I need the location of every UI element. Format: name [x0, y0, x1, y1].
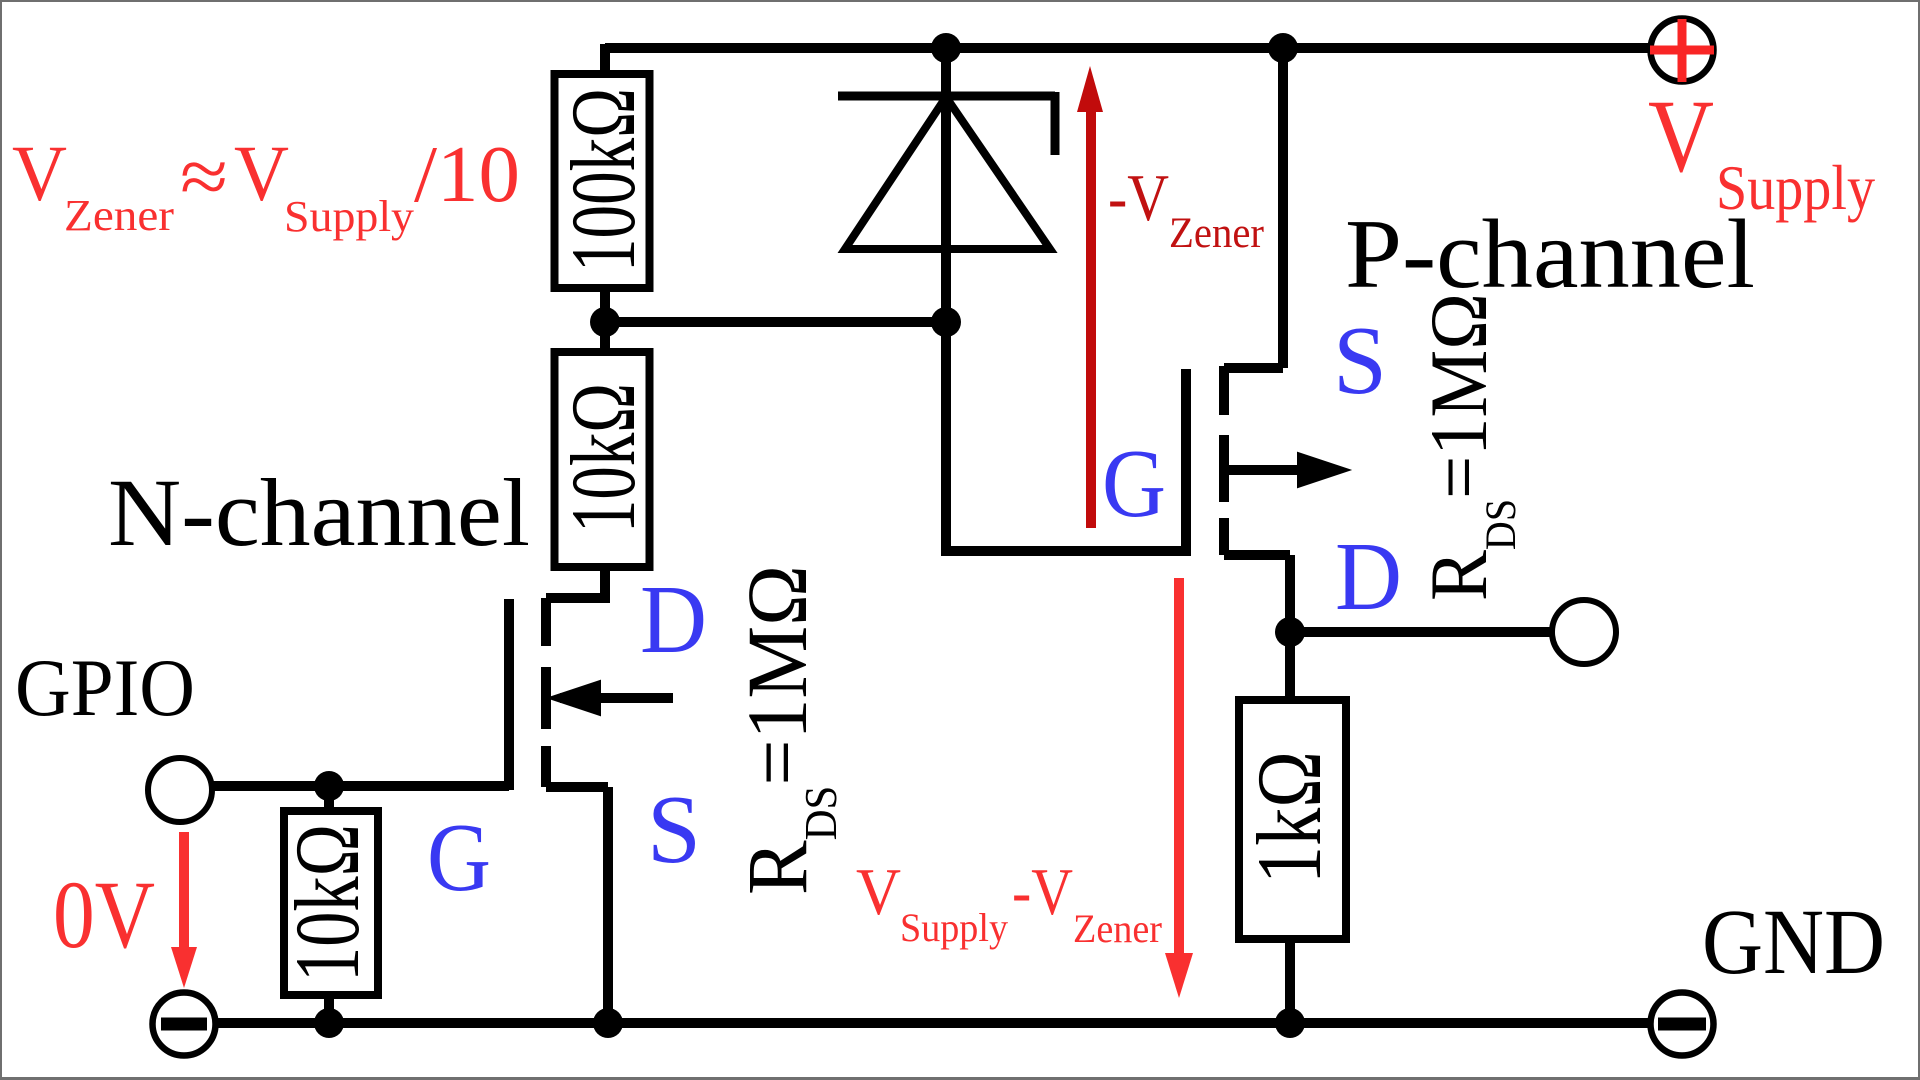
junction divider node	[590, 307, 620, 337]
resistor R1 100kΩ	[552, 74, 654, 288]
transistor Q2 source lead	[1224, 48, 1283, 368]
arrow V_Supply-V_Zener shaft	[1174, 578, 1184, 958]
terminal V_Supply red cross	[1650, 19, 1714, 82]
wire 100k bottom lead	[600, 288, 610, 352]
wire top rail	[605, 43, 1648, 53]
wire divider node to zener anode	[605, 317, 946, 327]
svg-text:Supply: Supply	[900, 905, 1008, 950]
svg-text:GND: GND	[1702, 891, 1885, 994]
svg-text:0V: 0V	[53, 861, 155, 968]
junction GPIO pulldown	[314, 771, 344, 801]
transistor Q1 drain lead	[546, 567, 610, 598]
svg-text:P-channel: P-channel	[1345, 200, 1755, 309]
svg-text:S: S	[1333, 307, 1387, 415]
transistor Q2 channel dash middle	[1219, 435, 1229, 502]
svg-text:Zener: Zener	[1169, 210, 1264, 257]
svg-text:≈: ≈	[180, 134, 228, 221]
transistor Q1 N-channel gate plate	[504, 599, 514, 790]
transistor Q1 channel dash bottom	[541, 746, 551, 787]
wire drain node to 1k	[1285, 632, 1295, 700]
terminal GND minus bar	[1658, 1018, 1706, 1031]
transistor Q1 body arrow shaft	[560, 693, 673, 703]
junction 1k bottom	[1275, 1008, 1305, 1038]
arrow 0V shaft	[179, 832, 189, 952]
zener diode D1 cathode bar	[838, 92, 1055, 101]
svg-text:V: V	[234, 131, 289, 218]
transistor Q2 channel dash bottom	[1219, 518, 1229, 555]
svg-text:100kΩ: 100kΩ	[552, 88, 654, 272]
arrow -V_Zener shaft	[1086, 105, 1096, 528]
wire zener anode to P-gate	[946, 322, 1186, 551]
zener diode D1 triangle	[845, 97, 1050, 249]
wire pulldown bottom lead	[324, 995, 334, 1023]
svg-text:N-channel: N-channel	[108, 459, 530, 566]
transistor Q2 body arrow head	[1298, 453, 1349, 487]
junction zener anode	[931, 307, 961, 337]
transistor Q1 channel dash middle	[541, 667, 551, 729]
svg-text:-V: -V	[1108, 161, 1169, 235]
svg-text:Zener: Zener	[1073, 906, 1162, 951]
terminal GND minus	[1651, 993, 1714, 1056]
svg-text:D: D	[640, 566, 707, 674]
resistor R3 10kΩ pulldown	[276, 811, 378, 995]
svg-text:10kΩ: 10kΩ	[276, 824, 378, 982]
frame bottom edge	[0, 1077, 1920, 1080]
svg-text:V: V	[12, 131, 67, 218]
terminal GND-left minus	[153, 993, 216, 1056]
svg-text:Zener: Zener	[64, 191, 174, 240]
wire pulldown top lead	[324, 786, 334, 811]
transistor Q1 source lead	[546, 787, 608, 1023]
junction Q2 drain node	[1275, 617, 1305, 647]
svg-text:V: V	[856, 855, 901, 929]
svg-text:1kΩ: 1kΩ	[1238, 751, 1340, 884]
junction zener cathode on top rail	[931, 33, 961, 63]
wire GPIO to Q1 gate	[213, 781, 509, 791]
terminal V_Supply plus	[1651, 19, 1714, 82]
resistor R4 1kΩ	[1238, 700, 1346, 939]
terminal output	[1552, 600, 1616, 664]
wire drain node to output terminal	[1290, 627, 1551, 637]
arrow V_Supply-V_Zener head	[1165, 953, 1193, 998]
svg-text:G: G	[1102, 430, 1166, 538]
transistor Q1 body arrow head	[549, 681, 600, 715]
svg-text:Supply: Supply	[1716, 153, 1875, 223]
svg-text:10kΩ: 10kΩ	[552, 383, 654, 533]
svg-text:-V: -V	[1012, 855, 1073, 929]
svg-text:G: G	[427, 804, 491, 912]
transistor Q2 channel dash top	[1219, 366, 1229, 415]
terminal GND-left minus bar	[161, 1018, 207, 1031]
junction P-source on top rail	[1268, 33, 1298, 63]
svg-text:V: V	[1648, 79, 1714, 194]
svg-text:Supply: Supply	[284, 192, 414, 241]
wire 100k top lead	[600, 44, 610, 74]
transistor Q1 channel dash top	[541, 598, 551, 646]
resistor R2 10kΩ	[552, 352, 654, 567]
wire 1k bottom lead	[1285, 939, 1295, 1023]
zener diode D1 lead	[941, 48, 951, 322]
arrow -V_Zener head	[1077, 66, 1103, 112]
arrow 0V head	[171, 947, 197, 988]
svg-text:D: D	[1335, 523, 1402, 631]
junction Q1 source bottom	[593, 1008, 623, 1038]
svg-text:/10: /10	[414, 131, 520, 219]
wire bottom rail	[217, 1018, 1648, 1028]
transistor Q2 drain lead	[1224, 555, 1290, 632]
zener diode D1 cathode hook	[1051, 92, 1060, 155]
terminal GPIO	[148, 758, 212, 822]
svg-text:S: S	[647, 776, 701, 884]
svg-text:GPIO: GPIO	[15, 642, 195, 733]
transistor Q2 body arrow shaft	[1224, 465, 1310, 475]
junction pulldown bottom	[314, 1008, 344, 1038]
